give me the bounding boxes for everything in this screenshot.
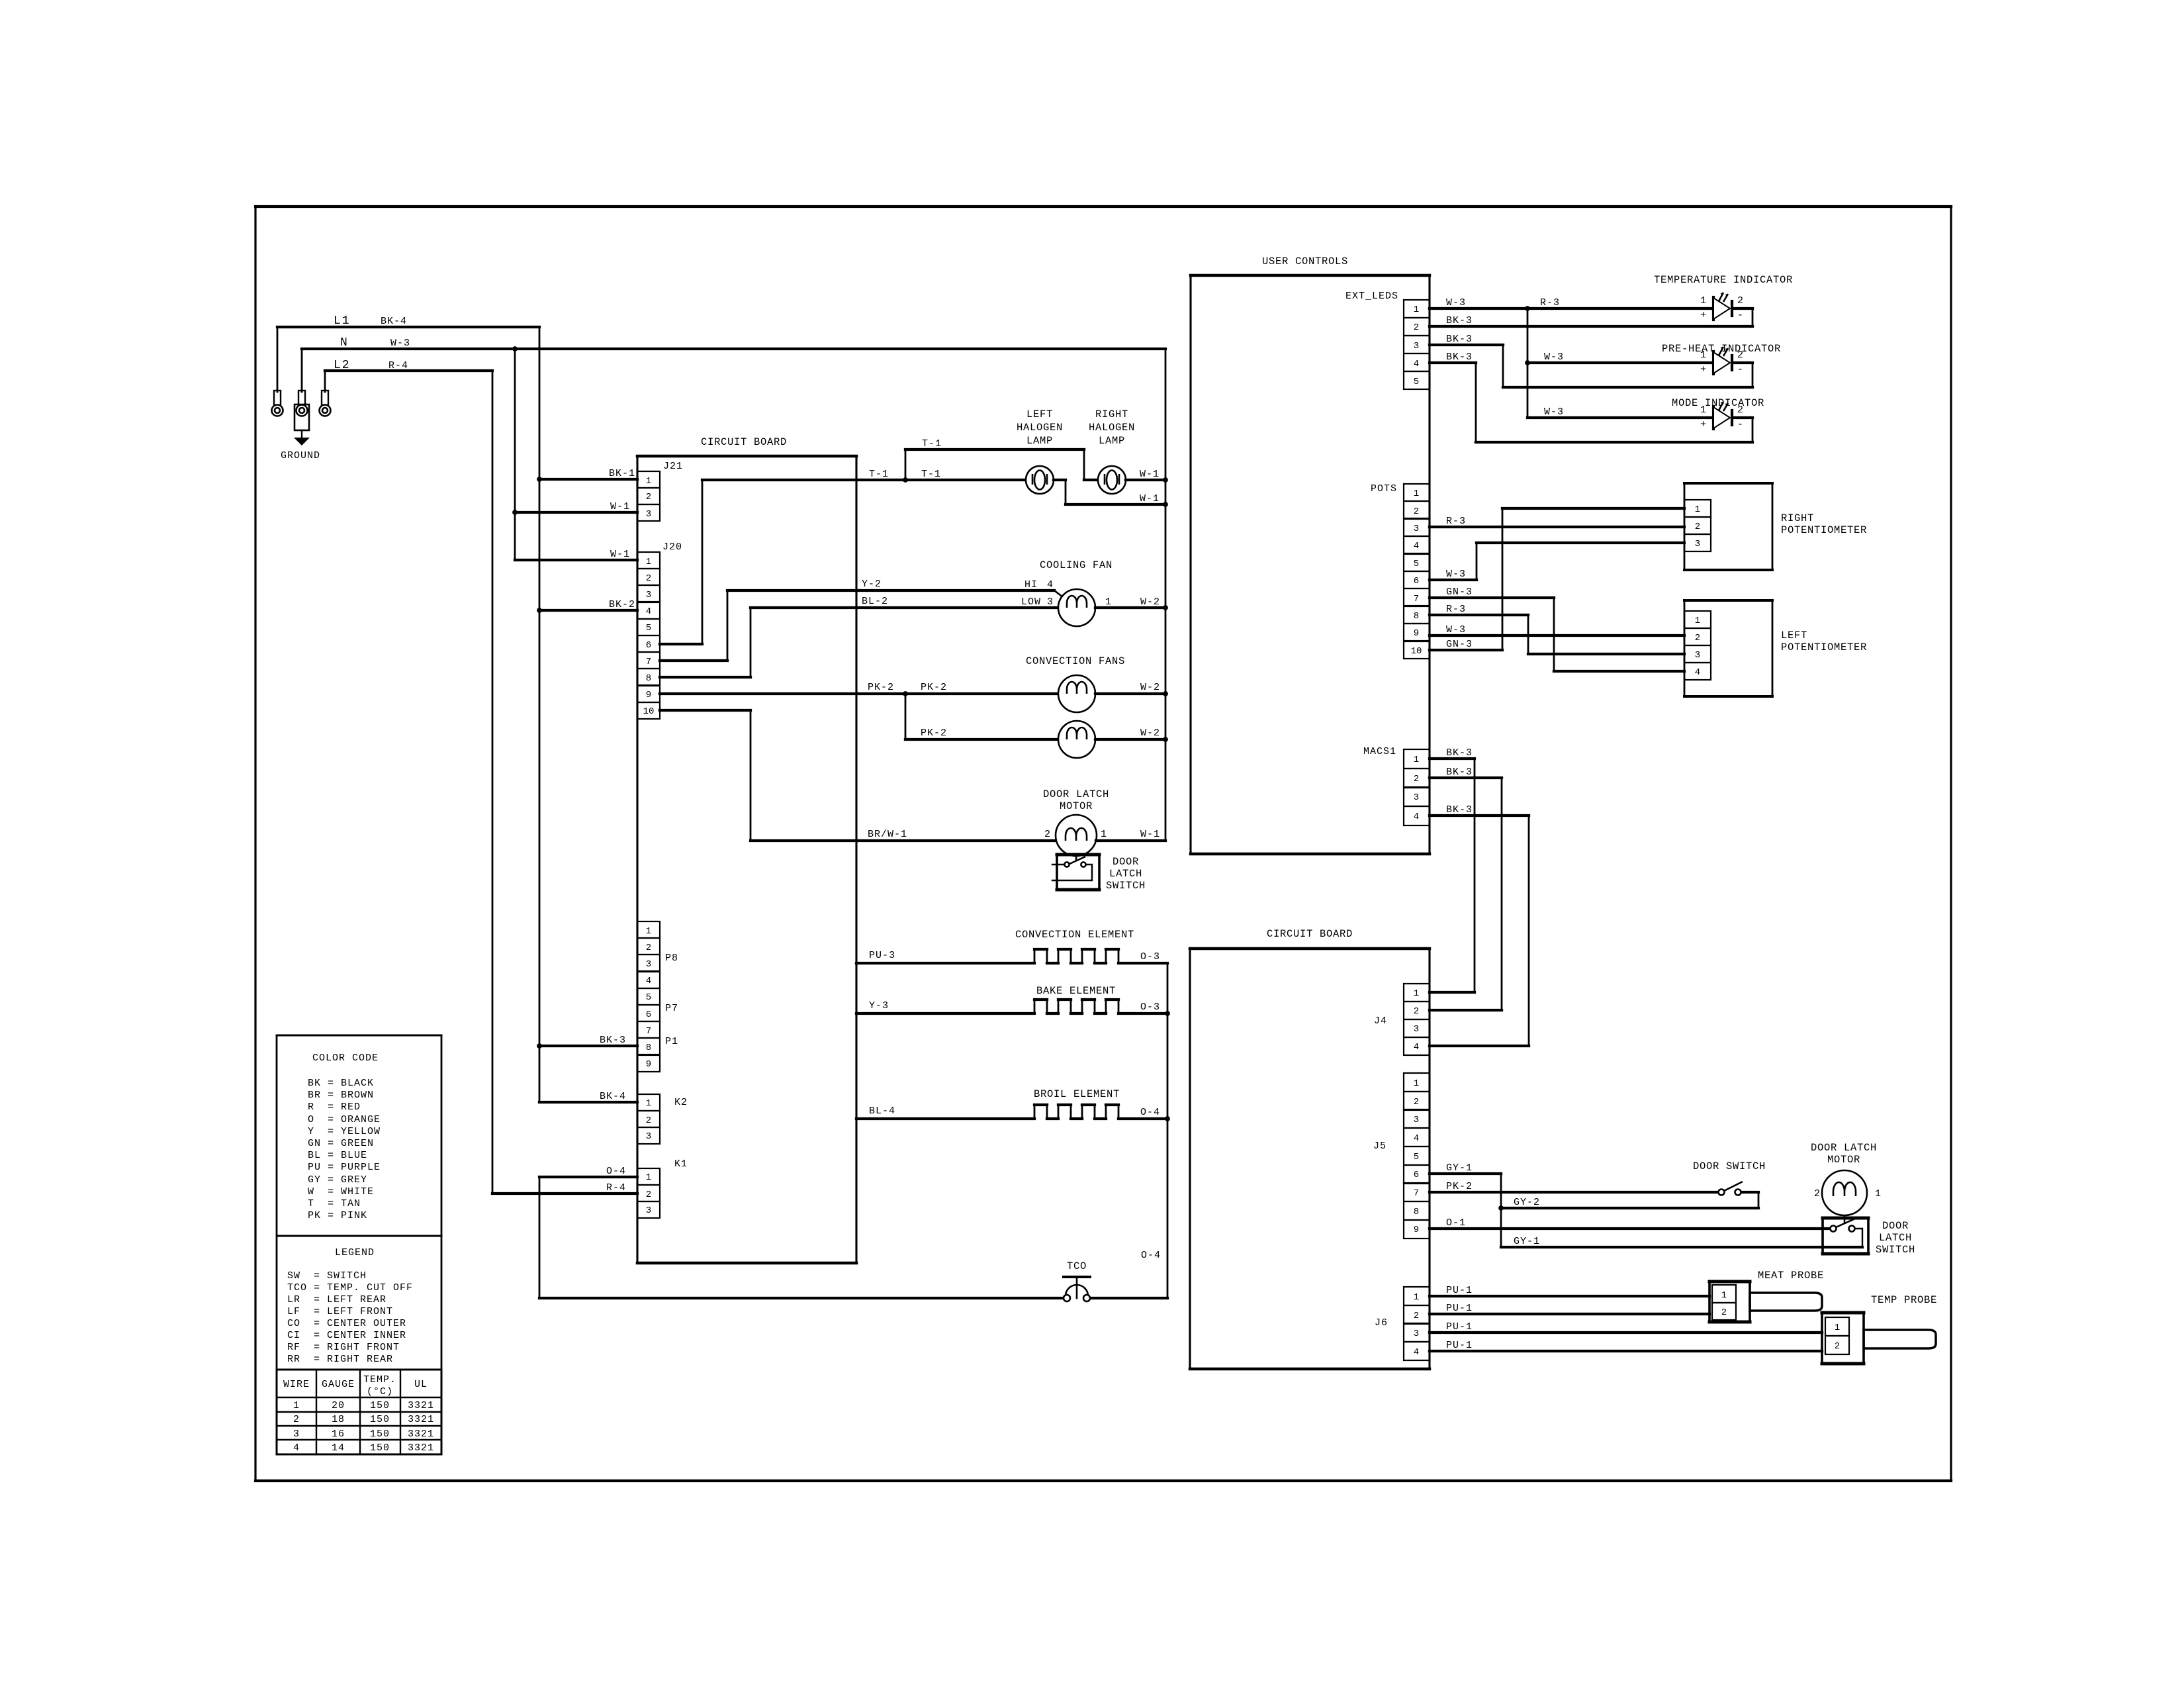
svg-text:2: 2 xyxy=(1414,1097,1419,1107)
svg-text:+: + xyxy=(1700,364,1707,375)
lamp right halogen xyxy=(1098,466,1126,494)
junction W bus j3 xyxy=(1163,605,1168,610)
wire J20-9 PK-2 xyxy=(660,692,1058,695)
wire N feed xyxy=(302,349,1165,392)
svg-text:7: 7 xyxy=(646,1026,651,1037)
svg-text:4: 4 xyxy=(1414,359,1419,369)
junction W-1 tap xyxy=(512,510,518,515)
meat probe pins xyxy=(1712,1285,1736,1320)
svg-text:DOOR: DOOR xyxy=(1113,856,1139,868)
svg-text:PK-2: PK-2 xyxy=(868,682,894,693)
wire LED3 return BK-3 xyxy=(1430,363,1752,442)
lamp left halogen xyxy=(1026,466,1054,494)
svg-text:W-3: W-3 xyxy=(1544,352,1564,363)
terminal L1 xyxy=(272,391,283,416)
svg-text:TEMP PROBE: TEMP PROBE xyxy=(1871,1294,1937,1306)
svg-text:2: 2 xyxy=(1414,506,1419,517)
legend entries xyxy=(287,1270,413,1365)
svg-text:1: 1 xyxy=(1700,350,1707,361)
wire L2 feed xyxy=(325,371,492,392)
svg-text:(°C): (°C) xyxy=(367,1386,393,1397)
svg-text:3: 3 xyxy=(1414,1115,1419,1125)
connector K2 xyxy=(637,1094,688,1144)
wire MACS1-2 BK-3 xyxy=(1430,778,1502,1010)
svg-text:LR = LEFT REAR: LR = LEFT REAR xyxy=(287,1294,387,1305)
svg-text:1: 1 xyxy=(293,1400,300,1411)
svg-text:BK-2: BK-2 xyxy=(609,599,635,610)
connector MACS1 xyxy=(1404,749,1430,825)
junction W-3 tap 2 xyxy=(1525,360,1530,365)
svg-text:2: 2 xyxy=(1414,1006,1419,1017)
junction GY-2 junction xyxy=(1498,1205,1504,1211)
svg-text:2: 2 xyxy=(1695,522,1700,532)
svg-text:5: 5 xyxy=(1414,559,1419,569)
svg-text:BROIL ELEMENT: BROIL ELEMENT xyxy=(1034,1088,1120,1100)
svg-text:W-3: W-3 xyxy=(1446,569,1466,580)
svg-text:3321: 3321 xyxy=(408,1429,434,1440)
svg-text:BK-3: BK-3 xyxy=(1446,767,1473,778)
connector J4 xyxy=(1404,984,1430,1055)
svg-text:UL: UL xyxy=(414,1379,428,1390)
svg-text:P1: P1 xyxy=(665,1036,678,1047)
junction W bus j4 xyxy=(1163,691,1168,696)
user controls board xyxy=(1191,275,1430,854)
svg-text:150: 150 xyxy=(370,1429,390,1440)
wire POTS-6 W-3 xyxy=(1430,543,1684,580)
circuit board (left) xyxy=(637,456,856,1263)
wire O-4 from K1-1 xyxy=(539,1177,1064,1298)
svg-text:GY-1: GY-1 xyxy=(1514,1236,1540,1247)
wire POTS-9 W-3 xyxy=(1430,634,1684,637)
svg-text:2: 2 xyxy=(646,943,651,953)
svg-text:O-3: O-3 xyxy=(1140,951,1160,962)
connector POTS xyxy=(1404,484,1430,659)
svg-text:R-4: R-4 xyxy=(606,1182,626,1194)
svg-text:3: 3 xyxy=(1414,792,1419,803)
legend box xyxy=(277,1236,441,1370)
svg-text:14: 14 xyxy=(332,1442,345,1454)
junction W bus j5 xyxy=(1163,737,1168,742)
wire J5-7 PK-2 xyxy=(1430,1191,1719,1194)
svg-text:+: + xyxy=(1700,310,1707,321)
svg-text:6: 6 xyxy=(646,1009,651,1020)
svg-text:8: 8 xyxy=(646,1043,651,1053)
right potentiometer pins xyxy=(1684,500,1711,551)
svg-text:1: 1 xyxy=(646,1172,651,1183)
svg-text:1: 1 xyxy=(1695,504,1700,515)
wire J6-2 PU-1 xyxy=(1430,1313,1709,1315)
left potentiometer pins xyxy=(1684,611,1711,680)
svg-text:POTS: POTS xyxy=(1371,483,1397,494)
terminal N / ground lug xyxy=(295,391,309,430)
svg-text:1: 1 xyxy=(646,1098,651,1109)
wire LED1 return BK-3 xyxy=(1430,308,1752,326)
svg-text:6: 6 xyxy=(1414,1170,1419,1180)
svg-text:20: 20 xyxy=(332,1400,345,1411)
svg-text:DOOR LATCH: DOOR LATCH xyxy=(1043,788,1109,800)
wire LED3 anode W-3 xyxy=(1527,416,1713,419)
junction T-1 tap xyxy=(903,477,908,483)
LED mode indicator xyxy=(1713,402,1732,429)
svg-text:7: 7 xyxy=(1414,1188,1419,1199)
svg-text:9: 9 xyxy=(646,690,651,700)
latch switch contact a xyxy=(1831,1226,1837,1232)
svg-text:150: 150 xyxy=(370,1442,390,1454)
svg-text:5: 5 xyxy=(1414,377,1419,387)
wire door switch out GY-2 xyxy=(1501,1192,1758,1208)
connector EXT_LEDS xyxy=(1404,300,1430,389)
svg-text:W-3: W-3 xyxy=(1446,297,1466,308)
svg-text:1: 1 xyxy=(1721,1290,1727,1301)
svg-text:LEFT: LEFT xyxy=(1026,408,1053,420)
wire POTS-8 R-3 xyxy=(1430,615,1684,654)
svg-text:MOTOR: MOTOR xyxy=(1060,800,1093,812)
svg-text:SW = SWITCH: SW = SWITCH xyxy=(287,1270,367,1282)
svg-text:4: 4 xyxy=(1414,1347,1419,1358)
svg-text:R = RED: R = RED xyxy=(308,1102,361,1113)
svg-text:3321: 3321 xyxy=(408,1400,434,1411)
ground xyxy=(294,430,310,445)
svg-text:O-1: O-1 xyxy=(1446,1217,1466,1229)
wire cooling fan out W-2 xyxy=(1095,606,1165,609)
svg-text:PK = PINK: PK = PINK xyxy=(308,1210,367,1221)
wire O bus xyxy=(1090,963,1167,1298)
wire L1/BK bus xyxy=(539,327,637,1102)
wire L1 feed xyxy=(277,327,539,392)
svg-text:5: 5 xyxy=(646,992,651,1003)
wire W-3 feed vertical xyxy=(1527,308,1529,418)
connector K1 xyxy=(637,1158,688,1218)
motor convection fan 2 xyxy=(1058,721,1095,758)
svg-text:2: 2 xyxy=(646,573,651,584)
svg-text:W-1: W-1 xyxy=(1140,469,1160,480)
svg-text:CONVECTION FANS: CONVECTION FANS xyxy=(1026,655,1125,667)
svg-text:2: 2 xyxy=(1814,1188,1821,1199)
svg-text:LOW: LOW xyxy=(1021,596,1041,608)
svg-text:BAKE ELEMENT: BAKE ELEMENT xyxy=(1036,985,1116,997)
svg-text:1: 1 xyxy=(646,557,651,567)
svg-text:16: 16 xyxy=(332,1429,345,1440)
svg-text:2: 2 xyxy=(646,492,651,502)
svg-text:GROUND: GROUND xyxy=(281,450,320,461)
wire EXT_LEDS-1 W-3/R-3 xyxy=(1430,307,1713,310)
svg-text:4: 4 xyxy=(1695,667,1700,678)
svg-text:PU-1: PU-1 xyxy=(1446,1340,1473,1351)
svg-text:T-1: T-1 xyxy=(922,438,942,449)
svg-text:1: 1 xyxy=(646,926,651,937)
svg-text:5: 5 xyxy=(646,623,651,633)
svg-text:1: 1 xyxy=(1414,988,1419,999)
meat probe shaft xyxy=(1750,1293,1822,1311)
svg-text:LATCH: LATCH xyxy=(1879,1232,1912,1244)
svg-text:GN-3: GN-3 xyxy=(1446,639,1473,650)
wire L2/R bus xyxy=(492,371,637,1194)
wire POTS-10 GN-3 xyxy=(1430,508,1684,650)
svg-text:J21: J21 xyxy=(663,461,683,472)
svg-text:1: 1 xyxy=(1700,404,1707,416)
wire PK-2 branch fan2 xyxy=(905,694,1058,739)
wire W-1 to J21-3 xyxy=(515,511,637,514)
svg-text:PK-2: PK-2 xyxy=(921,682,947,693)
svg-text:3: 3 xyxy=(1695,539,1700,549)
svg-text:3: 3 xyxy=(646,1205,651,1216)
svg-text:K1: K1 xyxy=(674,1158,688,1170)
broil element xyxy=(856,1105,1167,1119)
svg-text:GN = GREEN: GN = GREEN xyxy=(308,1138,374,1149)
svg-text:BK-3: BK-3 xyxy=(1446,352,1473,363)
svg-text:2: 2 xyxy=(1414,1311,1419,1321)
junction BK-3 tap xyxy=(537,1043,542,1049)
svg-text:BR/W-1: BR/W-1 xyxy=(868,829,907,840)
wire T-1 upper link xyxy=(905,449,1098,480)
svg-text:BK-1: BK-1 xyxy=(609,468,635,479)
door switch contact b xyxy=(1735,1190,1741,1196)
svg-text:3: 3 xyxy=(1414,1329,1419,1339)
svg-text:2: 2 xyxy=(1835,1341,1840,1352)
svg-text:2: 2 xyxy=(1044,829,1051,840)
svg-text:EXT_LEDS: EXT_LEDS xyxy=(1345,291,1398,302)
svg-text:GAUGE: GAUGE xyxy=(322,1379,355,1390)
wire LED2 anode W-3 xyxy=(1527,361,1713,364)
svg-text:PU = PURPLE: PU = PURPLE xyxy=(308,1162,381,1173)
svg-text:O-4: O-4 xyxy=(606,1166,626,1177)
connector J6 xyxy=(1404,1287,1430,1360)
svg-text:PU-3: PU-3 xyxy=(869,950,895,961)
svg-text:O-3: O-3 xyxy=(1140,1002,1160,1013)
svg-text:J6: J6 xyxy=(1375,1317,1388,1329)
svg-text:8: 8 xyxy=(1414,611,1419,622)
svg-text:J4: J4 xyxy=(1374,1015,1387,1027)
wire J5-9 O-1 xyxy=(1430,1227,1831,1230)
wire MACS1-4 BK-3 xyxy=(1430,816,1529,1046)
wire POTS-7 GN-3 xyxy=(1430,598,1684,671)
svg-text:W-3: W-3 xyxy=(1446,624,1466,635)
wire J5-6 GY-1 xyxy=(1430,1174,1862,1247)
svg-text:BK-3: BK-3 xyxy=(600,1035,626,1046)
svg-text:1: 1 xyxy=(1414,1078,1419,1089)
svg-text:9: 9 xyxy=(646,1059,651,1070)
svg-text:BL-2: BL-2 xyxy=(862,596,888,607)
wire BK-2 to J20-4 xyxy=(539,609,637,612)
svg-text:1: 1 xyxy=(1105,596,1112,608)
junction O bus j2 xyxy=(1165,1116,1170,1121)
svg-text:P7: P7 xyxy=(665,1003,678,1014)
svg-text:POTENTIOMETER: POTENTIOMETER xyxy=(1781,524,1867,536)
TCO temperature cut-off xyxy=(1064,1277,1090,1298)
door latch switch (mid) internals xyxy=(1052,853,1092,880)
svg-text:LAMP: LAMP xyxy=(1026,435,1053,447)
svg-text:Y-2: Y-2 xyxy=(862,579,882,590)
left potentiometer xyxy=(1684,600,1772,696)
svg-text:9: 9 xyxy=(1414,1225,1419,1235)
circuit board (right) xyxy=(1190,949,1430,1369)
door latch switch (right) xyxy=(1823,1218,1868,1254)
temp probe connector xyxy=(1822,1313,1864,1364)
svg-text:1: 1 xyxy=(1414,1292,1419,1303)
svg-text:4: 4 xyxy=(646,606,651,617)
svg-text:T-1: T-1 xyxy=(869,469,889,480)
LED pre-heat indicator xyxy=(1713,347,1732,374)
TCO contact left xyxy=(1064,1295,1070,1301)
svg-text:TCO = TEMP. CUT OFF: TCO = TEMP. CUT OFF xyxy=(287,1282,413,1293)
wire POTS-3 R-3 xyxy=(1430,526,1684,528)
color code box xyxy=(277,1035,441,1236)
svg-text:7: 7 xyxy=(1414,594,1419,604)
svg-text:1: 1 xyxy=(1414,489,1419,499)
svg-text:J5: J5 xyxy=(1373,1141,1387,1152)
svg-text:6: 6 xyxy=(1414,576,1419,586)
svg-text:MOTOR: MOTOR xyxy=(1827,1154,1860,1166)
wire left lamp return W-1 xyxy=(1054,480,1165,504)
svg-text:R-3: R-3 xyxy=(1446,604,1466,615)
svg-text:5: 5 xyxy=(1414,1152,1419,1162)
svg-text:BK-3: BK-3 xyxy=(1446,747,1473,759)
wire J20-10 to BR/W-1 xyxy=(660,710,1056,841)
svg-text:RR = RIGHT REAR: RR = RIGHT REAR xyxy=(287,1354,393,1365)
temp probe pins xyxy=(1825,1317,1849,1354)
svg-text:HALOGEN: HALOGEN xyxy=(1089,422,1135,434)
svg-text:MEAT PROBE: MEAT PROBE xyxy=(1758,1270,1824,1282)
svg-text:BK-3: BK-3 xyxy=(1446,804,1473,816)
svg-text:3: 3 xyxy=(646,509,651,520)
svg-text:O = ORANGE: O = ORANGE xyxy=(308,1114,381,1125)
svg-text:CO = CENTER OUTER: CO = CENTER OUTER xyxy=(287,1318,406,1329)
svg-text:POTENTIOMETER: POTENTIOMETER xyxy=(1781,641,1867,653)
wire J6-3 PU-1 xyxy=(1430,1331,1822,1334)
svg-text:2: 2 xyxy=(646,1190,651,1200)
svg-text:SWITCH: SWITCH xyxy=(1106,880,1146,892)
right potentiometer xyxy=(1684,483,1772,570)
svg-text:1: 1 xyxy=(1835,1323,1840,1333)
svg-text:2: 2 xyxy=(1737,404,1744,416)
svg-text:3: 3 xyxy=(1695,650,1700,661)
svg-text:-: - xyxy=(1737,419,1744,430)
LED temperature indicator xyxy=(1713,293,1732,320)
svg-text:CIRCUIT BOARD: CIRCUIT BOARD xyxy=(701,436,787,448)
svg-text:4: 4 xyxy=(1414,1133,1419,1144)
svg-text:COOLING FAN: COOLING FAN xyxy=(1040,559,1113,571)
terminal L2 xyxy=(320,391,331,416)
motor cooling fan xyxy=(1058,589,1095,626)
bake element xyxy=(856,1000,1167,1013)
svg-text:-: - xyxy=(1737,310,1744,321)
temp probe shaft xyxy=(1864,1330,1936,1348)
wire J20-6 to T-1 xyxy=(660,480,1026,644)
wire LED2 return BK-3 xyxy=(1430,345,1752,387)
svg-text:W-1: W-1 xyxy=(610,549,630,560)
wire gauge table xyxy=(277,1370,441,1454)
svg-text:2: 2 xyxy=(646,1115,651,1126)
svg-text:R-3: R-3 xyxy=(1446,516,1466,527)
svg-text:2: 2 xyxy=(1721,1307,1727,1318)
svg-text:10: 10 xyxy=(1411,646,1422,657)
svg-text:2: 2 xyxy=(293,1414,300,1425)
wire J6-1 PU-1 xyxy=(1430,1295,1709,1297)
svg-text:LATCH: LATCH xyxy=(1109,868,1142,880)
contact b (mid latch) xyxy=(1081,862,1085,867)
svg-text:RIGHT: RIGHT xyxy=(1095,408,1128,420)
svg-text:GY = GREY: GY = GREY xyxy=(308,1174,367,1186)
motor door latch (mid) xyxy=(1056,815,1097,856)
svg-text:Y = YELLOW: Y = YELLOW xyxy=(308,1126,381,1137)
svg-text:3: 3 xyxy=(1414,524,1419,534)
svg-text:LAMP: LAMP xyxy=(1099,435,1125,447)
svg-text:3: 3 xyxy=(293,1429,300,1440)
svg-text:PU-1: PU-1 xyxy=(1446,1303,1473,1314)
svg-text:BR = BROWN: BR = BROWN xyxy=(308,1090,374,1101)
svg-text:MACS1: MACS1 xyxy=(1363,746,1396,757)
TCO contact right xyxy=(1083,1295,1090,1301)
svg-text:3: 3 xyxy=(1047,596,1054,608)
svg-text:4: 4 xyxy=(1414,1042,1419,1053)
svg-text:BL = BLUE: BL = BLUE xyxy=(308,1150,367,1161)
motor door latch (right) xyxy=(1822,1170,1867,1215)
wire right lamp return W-1 xyxy=(1126,479,1165,481)
contact a (mid latch) xyxy=(1064,862,1069,867)
svg-text:1: 1 xyxy=(1414,755,1419,765)
svg-text:1: 1 xyxy=(1414,305,1419,315)
svg-text:2: 2 xyxy=(1737,295,1744,306)
svg-text:W-1: W-1 xyxy=(1140,829,1160,840)
svg-text:3: 3 xyxy=(646,1131,651,1142)
svg-text:R-3: R-3 xyxy=(1540,297,1560,308)
wire N branch W bus xyxy=(515,349,637,560)
svg-text:3: 3 xyxy=(1414,341,1419,352)
junction BK-2 tap xyxy=(537,608,542,613)
svg-text:3: 3 xyxy=(646,959,651,970)
wire conv fan2 out W-2 xyxy=(1095,738,1165,741)
svg-text:O-4: O-4 xyxy=(1141,1250,1161,1261)
svg-text:BK-3: BK-3 xyxy=(1446,315,1473,326)
svg-text:GY-2: GY-2 xyxy=(1514,1197,1540,1208)
wire J6-4 PU-1 xyxy=(1430,1350,1822,1352)
svg-text:MODE INDICATOR: MODE INDICATOR xyxy=(1672,397,1764,409)
svg-text:8: 8 xyxy=(1414,1207,1419,1217)
svg-text:HI: HI xyxy=(1024,579,1038,590)
svg-text:W-2: W-2 xyxy=(1140,596,1160,608)
connector J5 xyxy=(1404,1073,1430,1239)
door latch switch (right) internals xyxy=(1836,1215,1862,1247)
svg-text:USER CONTROLS: USER CONTROLS xyxy=(1262,256,1348,267)
svg-text:PK-2: PK-2 xyxy=(921,727,947,739)
svg-text:3321: 3321 xyxy=(408,1442,434,1454)
svg-text:T-1: T-1 xyxy=(921,469,941,480)
svg-text:W-1: W-1 xyxy=(610,501,630,512)
svg-text:BK = BLACK: BK = BLACK xyxy=(308,1078,374,1089)
svg-text:2: 2 xyxy=(1695,633,1700,643)
door switch blade xyxy=(1724,1182,1743,1191)
svg-text:W-2: W-2 xyxy=(1140,682,1160,693)
svg-text:W-2: W-2 xyxy=(1140,727,1160,739)
svg-text:8: 8 xyxy=(646,673,651,684)
svg-text:4: 4 xyxy=(1414,541,1419,551)
svg-text:J20: J20 xyxy=(662,541,682,553)
svg-text:DOOR SWITCH: DOOR SWITCH xyxy=(1693,1160,1766,1172)
wire door latch motor out W-1 xyxy=(1096,349,1165,841)
junction BK-1 tap xyxy=(537,477,542,482)
svg-text:+: + xyxy=(1700,419,1707,430)
svg-text:GN-3: GN-3 xyxy=(1446,586,1473,598)
svg-text:2: 2 xyxy=(1414,322,1419,333)
svg-text:1: 1 xyxy=(1700,295,1707,306)
svg-text:BK-3: BK-3 xyxy=(1446,334,1473,345)
svg-text:150: 150 xyxy=(370,1414,390,1425)
svg-text:9: 9 xyxy=(1414,628,1419,639)
svg-text:-: - xyxy=(1737,364,1744,375)
svg-text:PU-1: PU-1 xyxy=(1446,1321,1473,1333)
svg-text:4: 4 xyxy=(1047,579,1054,590)
meat probe connector xyxy=(1709,1282,1750,1322)
